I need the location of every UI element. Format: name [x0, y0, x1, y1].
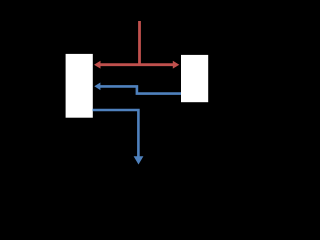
wire red horizontal [100, 63, 174, 66]
blue arrowhead down [134, 156, 144, 164]
right box [181, 55, 208, 102]
blue arrowhead left [94, 83, 100, 91]
red arrowhead right [173, 61, 180, 69]
wire red vertical [138, 21, 141, 66]
wire blue stepped [100, 86, 182, 93]
left box [66, 54, 93, 118]
red arrowhead left [94, 61, 101, 69]
wire blue elbow [93, 110, 139, 157]
